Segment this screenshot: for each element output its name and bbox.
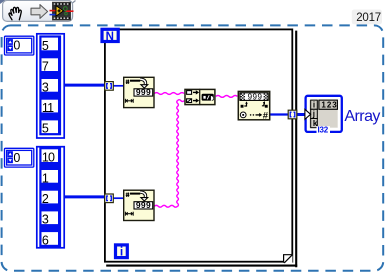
svg-text:5: 5 bbox=[42, 122, 49, 136]
svg-text:3: 3 bbox=[42, 213, 49, 227]
svg-text:I32: I32 bbox=[318, 126, 329, 135]
svg-text:999: 999 bbox=[248, 92, 263, 101]
svg-text:999: 999 bbox=[136, 87, 151, 97]
svg-text:Array: Array bbox=[344, 108, 380, 125]
svg-text:2: 2 bbox=[42, 192, 49, 206]
svg-text:7: 7 bbox=[42, 60, 49, 74]
svg-text:6: 6 bbox=[42, 233, 49, 247]
svg-text:#: # bbox=[263, 110, 269, 121]
svg-text:999: 999 bbox=[136, 200, 151, 210]
svg-text:N: N bbox=[106, 31, 114, 43]
svg-text:i: i bbox=[120, 245, 123, 259]
svg-text:0: 0 bbox=[13, 151, 20, 165]
svg-text:5: 5 bbox=[42, 39, 49, 53]
svg-text:0: 0 bbox=[13, 39, 20, 53]
svg-text:123: 123 bbox=[321, 100, 337, 109]
svg-text:10: 10 bbox=[42, 151, 55, 165]
svg-text:2017: 2017 bbox=[356, 12, 381, 24]
svg-text:11: 11 bbox=[42, 101, 54, 115]
svg-text:3: 3 bbox=[42, 80, 49, 94]
svg-text:j: j bbox=[312, 110, 315, 119]
svg-text:i: i bbox=[313, 101, 315, 110]
svg-text:1: 1 bbox=[42, 171, 49, 185]
